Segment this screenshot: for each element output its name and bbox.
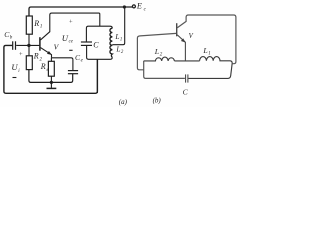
svg-text:L: L <box>154 47 159 56</box>
inductor L1 L2 tapped coil <box>110 28 112 57</box>
svg-text:R: R <box>40 62 46 71</box>
label Re <box>40 62 50 73</box>
svg-text:b: b <box>10 36 13 41</box>
svg-text:e: e <box>81 58 84 63</box>
svg-text:ce: ce <box>69 40 74 45</box>
label Cb <box>4 30 13 41</box>
svg-text:V: V <box>189 33 194 40</box>
resistor Re <box>48 61 54 76</box>
capacitor C tank <box>81 42 92 45</box>
label L1 coil a <box>114 32 122 43</box>
wire Re bottom lead <box>50 76 52 82</box>
capacitor C (b) <box>186 74 188 82</box>
transistor V base bar (b) <box>176 23 178 36</box>
wire coil tap to supply <box>112 7 124 45</box>
svg-text:1: 1 <box>120 37 122 42</box>
node supply junction <box>123 5 126 8</box>
svg-text:R: R <box>33 52 39 61</box>
node ground junction <box>50 81 53 84</box>
label Ce <box>75 53 84 64</box>
svg-text:+: + <box>69 18 73 25</box>
svg-text:R: R <box>33 19 39 28</box>
wire base node to transistor <box>16 44 39 46</box>
svg-text:1: 1 <box>208 52 211 57</box>
ground <box>47 82 57 88</box>
svg-text:2: 2 <box>121 50 124 55</box>
svg-text:2: 2 <box>160 52 163 57</box>
label L2 (b) <box>154 47 163 58</box>
svg-text:L: L <box>114 32 119 41</box>
label Ui <box>11 62 20 74</box>
wire input loop left and bottom rail <box>4 45 98 93</box>
wire tank left end to bottom rail (b) <box>144 61 185 79</box>
svg-text:L: L <box>202 46 207 55</box>
wire R1 bottom lead <box>28 34 30 45</box>
wire collector loop (b) <box>177 15 236 64</box>
svg-text:e: e <box>47 68 50 73</box>
capacitor Cb <box>13 41 16 50</box>
inductor L2 (b) <box>144 57 175 61</box>
transistor V base bar <box>39 37 41 51</box>
wire tank bottom stem <box>96 59 98 93</box>
wire R2 bottom to bias rail to Ce <box>29 70 73 83</box>
wire emitter lead (b) <box>177 35 185 61</box>
wire top supply rail (a) <box>29 7 132 16</box>
svg-text:L: L <box>115 44 120 53</box>
label Ec <box>136 2 147 13</box>
svg-text:c: c <box>144 6 147 12</box>
svg-text:+: + <box>19 51 23 58</box>
svg-text:V: V <box>54 42 60 51</box>
transistor V emitter lead with arrow <box>41 48 52 58</box>
inductor L1 (b) <box>188 57 232 79</box>
capacitor Ce <box>68 71 78 74</box>
resistor R2 <box>26 56 32 70</box>
label R1 <box>33 19 42 30</box>
label - output <box>69 49 72 51</box>
svg-text:1: 1 <box>40 25 43 30</box>
svg-text:(a): (a) <box>119 98 128 106</box>
wire emitter node to Ce <box>52 58 73 71</box>
label L1 (b) <box>202 46 210 57</box>
wire R2 top lead <box>28 47 30 56</box>
resistor R1 <box>26 16 32 34</box>
svg-text:E: E <box>136 2 142 11</box>
wire Re top lead <box>50 58 52 62</box>
svg-text:(b): (b) <box>153 97 162 105</box>
terminal Ec <box>132 5 135 8</box>
wire tank top rail and C top lead <box>86 26 112 42</box>
svg-text:C: C <box>183 87 189 96</box>
svg-text:i: i <box>18 69 20 74</box>
label Uce <box>62 33 74 45</box>
svg-text:C: C <box>93 41 99 50</box>
wire tank bottom rail and C bottom lead <box>87 46 113 60</box>
label - input <box>13 77 17 79</box>
wire base loop (b) <box>137 33 176 69</box>
label R2 <box>33 52 43 63</box>
wire baseline middle (b) <box>174 60 199 62</box>
label L2 coil a <box>115 44 124 55</box>
transistor V collector lead and top wire to tank <box>41 13 100 40</box>
node base junction <box>27 44 30 47</box>
